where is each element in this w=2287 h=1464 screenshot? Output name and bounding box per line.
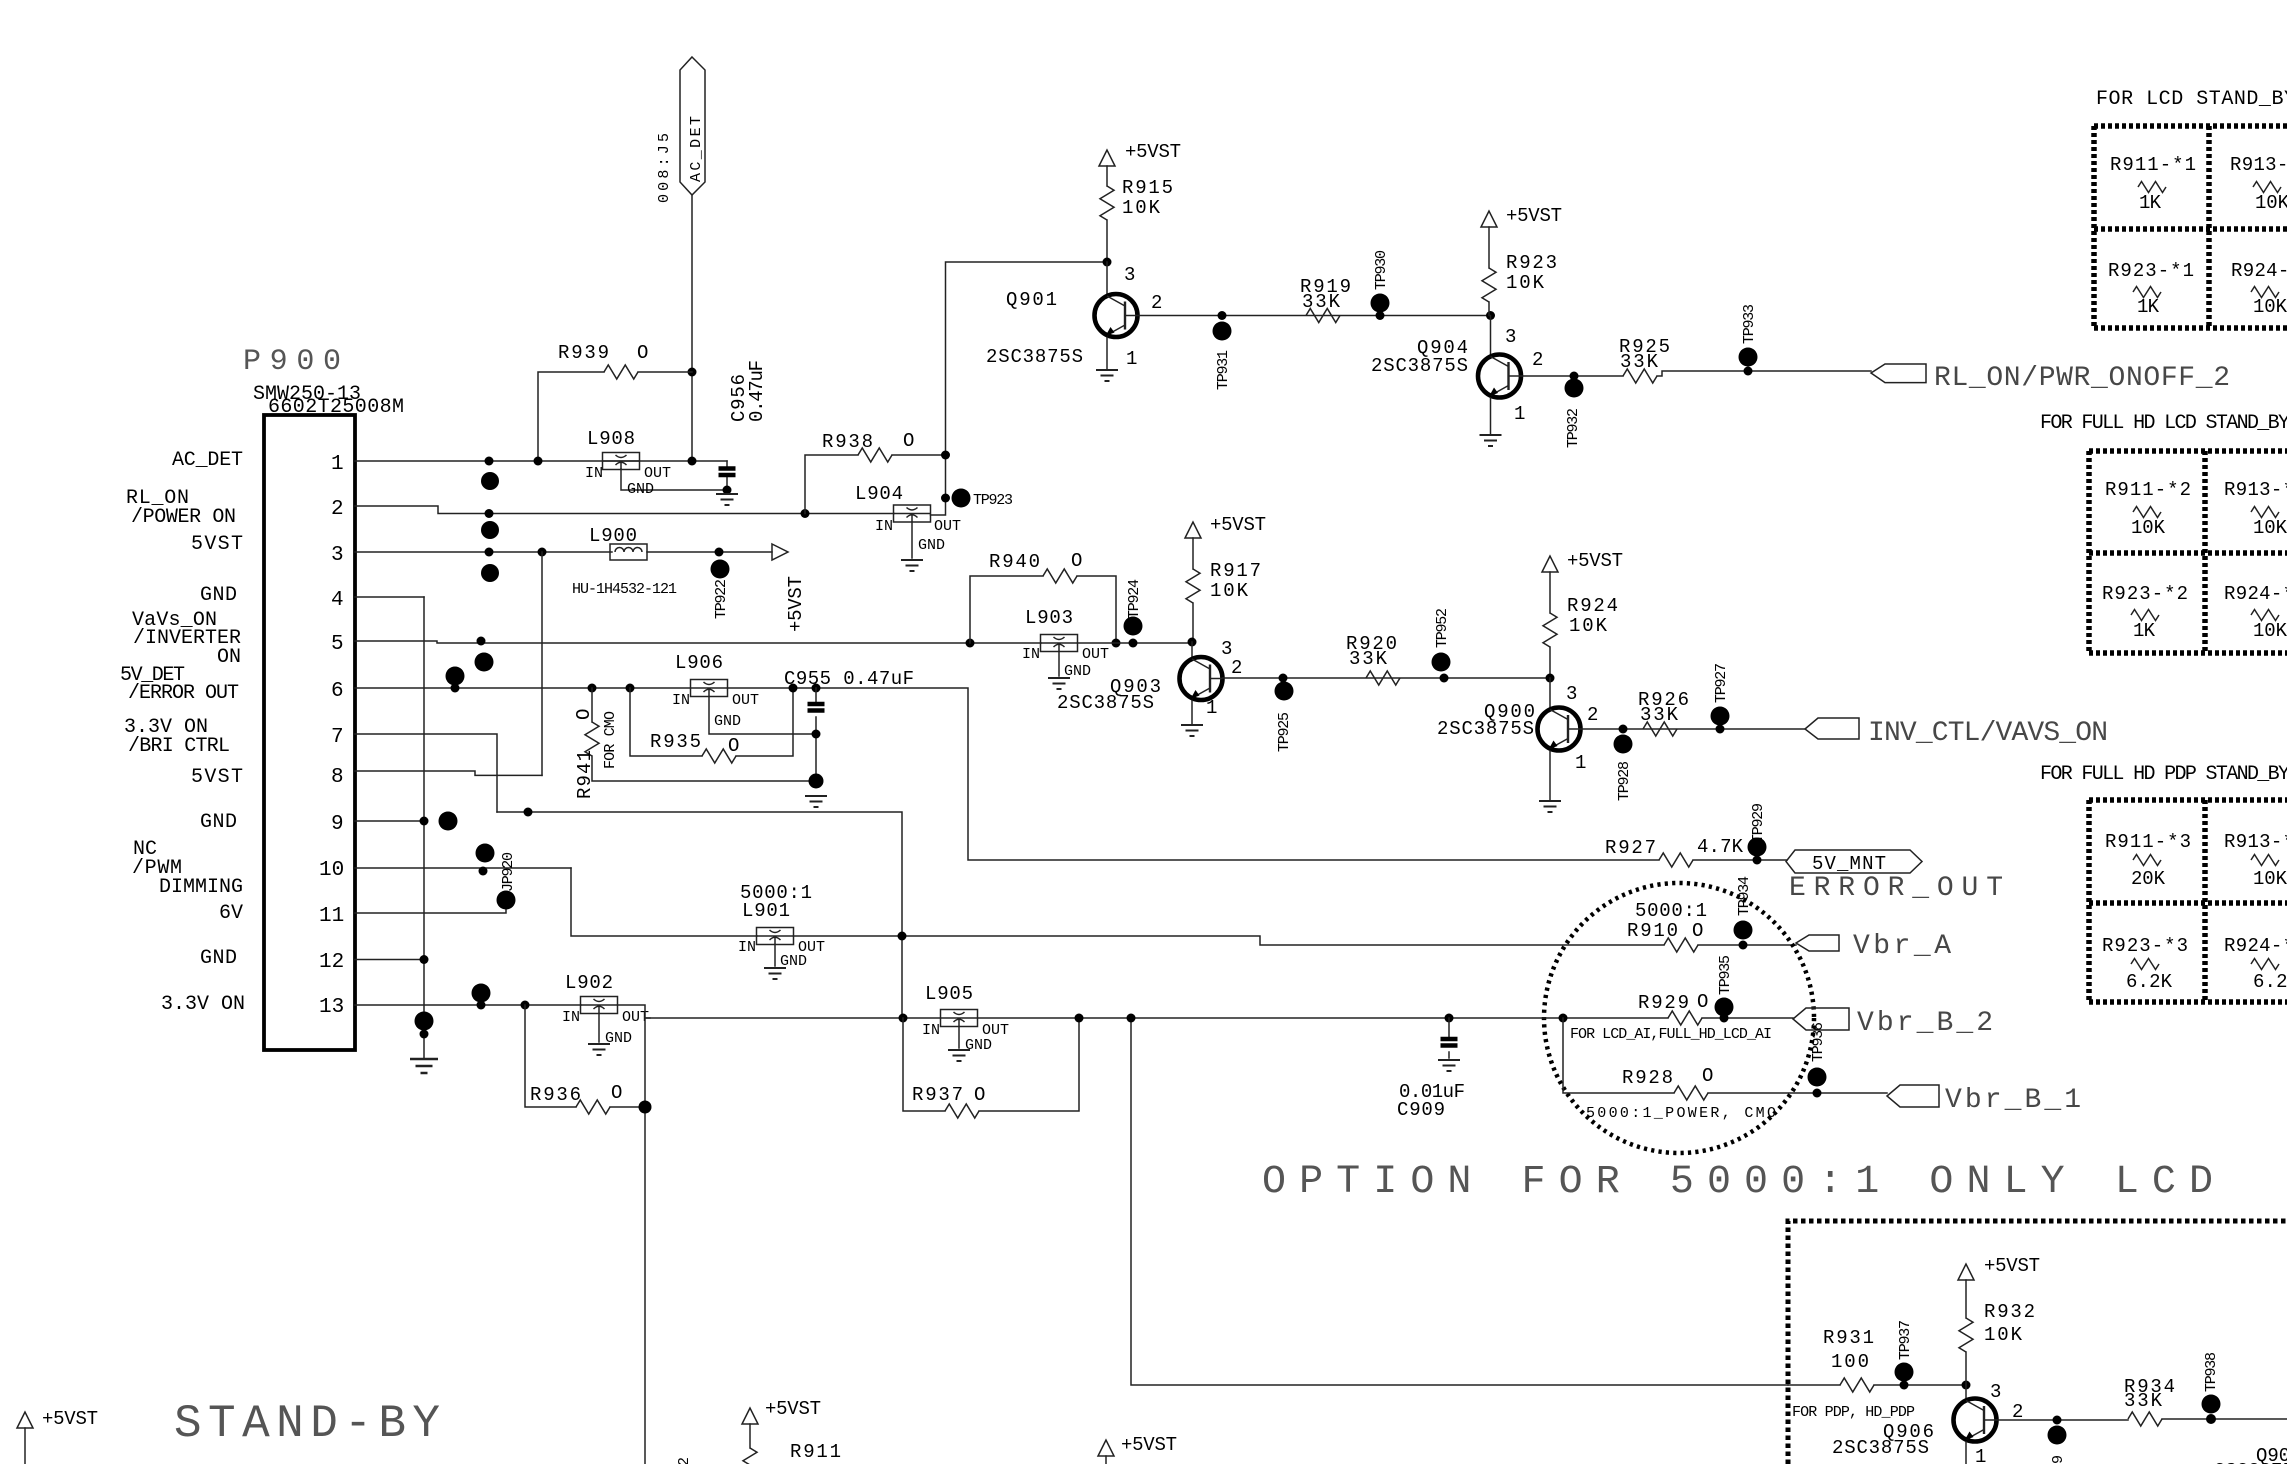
resistor R924-*3 6.2K [2224,935,2287,993]
option table 2 (full HD LCD) [2089,451,2287,653]
power +5VST above R917 [1185,514,1266,569]
test point TP939 [2048,1416,2068,1464]
svg-text:3: 3 [331,544,344,567]
svg-text:+5VST: +5VST [785,576,807,632]
wire pin6 continues [728,688,1660,860]
net flag Vbr_B_2 [1793,1008,1993,1039]
svg-text:R927: R927 [1605,837,1656,859]
svg-text:R924-*: R924-* [2224,583,2287,605]
svg-text:1: 1 [1126,348,1137,370]
resistor R919 33K [1300,276,1351,323]
wire Q906 base run [1997,1419,2287,1420]
svg-text:+5VST: +5VST [1506,205,1562,227]
pad dots lower [415,1012,434,1031]
ground below C909 [1438,1060,1460,1071]
resistor R937 (0) [903,1014,1084,1119]
svg-text:R932: R932 [1984,1301,2035,1323]
svg-text:TP931: TP931 [1215,350,1232,390]
svg-text:10K: 10K [1506,272,1545,294]
svg-text:3: 3 [1566,683,1577,705]
test point TP933 [1739,304,1759,376]
svg-text:+5VST: +5VST [1567,550,1623,572]
node pin1 dots [485,457,494,466]
svg-text:O: O [1692,920,1703,942]
svg-text:IN: IN [672,692,690,709]
power +5VST above R924 [1542,550,1623,613]
ground below L901 [764,968,786,979]
wire 5VST vertical pin3-pin8 [541,552,543,775]
svg-text:O: O [903,430,914,452]
test point TP924 [1124,579,1144,648]
svg-text:3: 3 [1990,1381,2001,1403]
power +5VST above R915 [1099,141,1181,186]
svg-text:10K: 10K [1984,1324,2023,1346]
resistor R923-*2 1K [2102,583,2188,642]
svg-text:6602T25008M: 6602T25008M [268,396,404,419]
ground below L904 [901,560,923,571]
wire GND vertical pin4 chain [423,597,425,1059]
inductor L903 [1022,607,1109,680]
svg-text:GND: GND [714,713,741,730]
svg-text:3: 3 [1505,326,1516,348]
node pin2 dots [485,509,494,518]
svg-text:RL_ON/PWR_ONOFF_2: RL_ON/PWR_ONOFF_2 [1934,363,2230,394]
svg-text:0.47uF: 0.47uF [746,360,768,422]
svg-text:TP922: TP922 [713,579,730,619]
svg-text:2: 2 [1231,657,1242,679]
branch to 3.3V rail [645,1017,650,1019]
node: AC_DET/R939 junction [688,368,697,377]
net flag Vbr_B_1 [1887,1085,2081,1116]
svg-text:ON: ON [217,646,241,669]
svg-text:R917: R917 [1210,560,1261,582]
svg-text:3: 3 [1124,264,1135,286]
node R941/C955 bottom [809,774,824,789]
svg-text:5VST: 5VST [191,533,243,556]
test point TP938 [2202,1352,2221,1424]
resistor R925 33K [1619,336,1670,383]
svg-text:R923-*2: R923-*2 [2102,583,2188,605]
node R938 right junction [941,451,950,460]
svg-text:OUT: OUT [934,518,961,535]
wire long vertical to bottom box [1131,1018,1788,1385]
wire 3.3V rail to circle [645,1017,1668,1019]
svg-text:10K: 10K [2253,620,2287,642]
resistor R924-*2 10K [2224,583,2287,642]
ground below L903 [1048,678,1070,689]
resistor R911-*3 20K [2105,831,2191,890]
svg-text:6.2K: 6.2K [2126,971,2173,993]
resistor R932 10K [1959,1301,2035,1385]
node Q903 collector junction [1188,638,1197,647]
svg-text:R910: R910 [1627,920,1678,942]
svg-text:+5VST: +5VST [1210,514,1266,536]
node Q906 collector junction [1962,1381,1971,1390]
svg-text:L904: L904 [855,483,903,505]
svg-text:13: 13 [319,996,344,1019]
table1 row divider [2094,226,2287,232]
net flag RL_ON/PWR_ONOFF_2 [1871,363,2230,394]
test point TP928 [1614,725,1634,802]
node pin7 line joins L901 out [898,932,907,941]
resistor R911-*2 10K [2105,479,2191,539]
svg-text:FOR PDP, HD_PDP: FOR PDP, HD_PDP [1792,1404,1915,1421]
resistor R926 33K [1638,689,1689,736]
wire Q901 base run [1138,315,1491,317]
svg-text:OUT: OUT [644,465,671,482]
svg-text:10K: 10K [2253,517,2287,539]
svg-text:TP930: TP930 [1373,250,1390,290]
resistor R931 100 [1788,1327,1966,1421]
svg-text:2SC3875S: 2SC3875S [1437,718,1534,740]
ground below Q903 [1181,725,1203,736]
test point TP922 [711,548,731,620]
wire L900 out to +5VST arrow [647,551,772,553]
resistor R929 (0) [1638,991,1793,1025]
wire Q900 base run [1581,728,1805,730]
inductor L900 [572,525,677,598]
svg-text:6: 6 [331,680,344,703]
ground below Q901 [1096,370,1118,381]
pad dot below pin1 [481,472,499,490]
node Q901 collector junction [1103,258,1112,267]
resistor R923-*3 6.2K [2102,935,2188,993]
test point TP930 [1371,250,1391,320]
resistor R913-*3 10K [2224,831,2287,890]
ground below L905 [948,1050,970,1061]
svg-text:L906: L906 [675,652,723,674]
svg-text:Vbr_B_2: Vbr_B_2 [1857,1008,1993,1039]
connector 008:J5 pill [656,57,705,203]
svg-text:2SC3875S: 2SC3875S [986,346,1083,368]
svg-text:TP935: TP935 [1717,955,1734,995]
node pin9 junction [420,817,429,826]
node C909 junction [1445,1014,1454,1023]
svg-text:R923: R923 [1506,252,1557,274]
svg-text:/ERROR OUT: /ERROR OUT [128,682,239,705]
svg-text:10: 10 [319,859,344,882]
svg-text:GND: GND [918,537,945,554]
svg-text:2: 2 [1587,704,1598,726]
svg-text:+5VST: +5VST [765,1398,821,1420]
svg-text:2SC3875S: 2SC3875S [2214,1460,2287,1464]
svg-text:O: O [1071,550,1082,572]
svg-text:IN: IN [585,465,603,482]
power +5VST bottom left [17,1408,98,1464]
svg-text:Q901: Q901 [1006,289,1057,311]
svg-text:TP932: TP932 [1565,408,1582,448]
capacitor C955 0.47uF [784,668,914,781]
pad dot pin9 [439,812,458,831]
svg-text:R911-*3: R911-*3 [2105,831,2191,853]
svg-text:R915: R915 [1122,177,1173,199]
svg-text:1: 1 [1575,752,1586,774]
svg-text:R924: R924 [1567,595,1618,617]
pin label 5V_DET /ERROR OUT [120,664,239,705]
svg-text:IN: IN [1022,646,1040,663]
node circle split junction [1559,1014,1568,1023]
svg-text:2: 2 [676,1457,693,1464]
svg-text:+5VST: +5VST [1984,1255,2040,1277]
svg-text:R938: R938 [822,431,873,453]
test point TP927 [1711,663,1731,734]
pin label RL_ON /POWER ON [126,487,236,529]
node Q900 collector junction [1546,674,1555,683]
svg-text:FOR FULL HD LCD STAND_BY: FOR FULL HD LCD STAND_BY [2040,412,2287,435]
pin 12 [319,951,424,974]
svg-text:R931: R931 [1823,1327,1874,1349]
resistor R938 (0) [805,430,946,514]
ground below Q904 [1480,435,1502,446]
node: AC_DET/pin1 junction [688,457,697,466]
svg-text:9: 9 [331,813,344,836]
svg-text:1: 1 [1514,403,1525,425]
svg-text:5000:1_POWER, CMO: 5000:1_POWER, CMO [1586,1105,1776,1122]
resistor R915 10K [1100,177,1173,262]
svg-text:2: 2 [1151,292,1162,314]
svg-text:100: 100 [1831,1351,1869,1373]
resistor R936 (0) [525,1005,652,1114]
svg-text:IN: IN [738,939,756,956]
svg-text:ERROR_OUT: ERROR_OUT [1789,873,2003,904]
svg-text:11: 11 [319,905,344,928]
svg-text:O: O [1697,991,1708,1013]
svg-text:5000:1: 5000:1 [1635,900,1707,922]
svg-text:R935: R935 [650,731,701,753]
svg-text:1: 1 [1206,697,1217,719]
transistor Q904 2SC3875S [1371,316,1543,435]
svg-text:TP924: TP924 [1126,579,1143,619]
svg-text:TP929: TP929 [1750,803,1767,843]
svg-text:10K: 10K [1210,580,1249,602]
svg-text:R923-*1: R923-*1 [2108,260,2194,282]
transistor Q900 2SC3875S [1437,678,1598,800]
resistor R939 (0) [538,342,692,461]
pin 7 [331,726,497,812]
svg-text:TP923: TP923 [973,492,1013,509]
svg-text:DIMMING: DIMMING [159,876,243,899]
wire pin7 horizontal run y=812 [497,812,902,1018]
pin 9 [331,813,424,836]
svg-text:10K: 10K [1569,615,1608,637]
ground below C956 [716,494,738,505]
svg-text:8: 8 [331,766,344,789]
resistor R935 (0) [626,684,794,764]
pin 3 [331,544,612,567]
svg-text:4: 4 [331,589,344,612]
svg-text:O: O [637,342,648,364]
resistor R924 10K [1543,595,1618,678]
resistor R913-*1 10K [2230,154,2287,214]
table3 row divider [2089,900,2287,906]
resistor R913-*2 10K [2224,479,2287,539]
svg-text:FOR LCD STAND_BY: FOR LCD STAND_BY [2096,88,2287,111]
svg-text:GND: GND [200,947,237,970]
svg-text:5: 5 [331,633,344,656]
net arrow +5VST [772,544,807,632]
svg-text:O: O [1702,1065,1713,1087]
pin 13 [319,996,581,1019]
svg-text:O: O [611,1082,622,1104]
pin 5 [331,633,1041,656]
resistor R927 4.7K [1605,836,1787,867]
test point TP937 [1895,1320,1915,1390]
svg-text:33K: 33K [2124,1390,2163,1412]
svg-text:GND: GND [200,811,237,834]
svg-text:Vbr_A: Vbr_A [1853,931,1951,962]
test point TP934 [1734,876,1754,950]
ground below Q900 [1539,801,1561,812]
inductor L906 [672,652,816,734]
node pin13 dots [472,984,491,1003]
resistor R920 33K [1346,633,1400,685]
resistor R923-*1 1K [2108,260,2194,318]
svg-text:10K: 10K [2255,192,2287,214]
svg-text:Vbr_B_1: Vbr_B_1 [1945,1085,2081,1116]
pin 6 [331,680,690,703]
wire L901 OUT to Vbr_A run [794,936,1665,945]
resistor R923 10K [1482,227,1557,316]
svg-text:R911: R911 [790,1441,841,1463]
svg-text:2: 2 [331,498,344,521]
svg-text:+5VST: +5VST [1125,141,1181,163]
svg-text:10K: 10K [2131,517,2166,539]
svg-text:R913-*: R913-* [2224,479,2287,501]
pin label 3.3V ON /BRI CTRL [124,716,230,758]
svg-text:C909: C909 [1397,1099,1445,1121]
svg-text:TP936: TP936 [1810,1022,1827,1062]
node L906 out / R935 right [789,684,798,693]
svg-text:GND: GND [627,481,654,498]
svg-text:2: 2 [1532,349,1543,371]
svg-text:L905: L905 [925,983,973,1005]
resistor R928 (0) [1563,1018,1887,1122]
svg-text:O: O [974,1084,985,1106]
power +5VST above R923 [1481,205,1562,227]
svg-text:TP938: TP938 [2203,1352,2220,1392]
svg-text:1K: 1K [2133,620,2156,642]
svg-text:R928: R928 [1622,1067,1673,1089]
pin 2 [331,498,894,521]
svg-text:5VST: 5VST [191,766,243,789]
svg-text:R929: R929 [1638,992,1689,1014]
resistor R924-*1 10K [2231,260,2287,318]
svg-text:2SC3875S: 2SC3875S [1832,1437,1929,1459]
net flag Vbr_A [1796,931,1951,962]
power +5VST above R932 [1958,1255,2040,1318]
test point TP935 [1715,955,1735,1023]
svg-text:AC_DET: AC_DET [172,449,243,472]
pin 1 [331,453,727,476]
pin 4 [331,589,424,612]
svg-text:L903: L903 [1025,607,1073,629]
svg-text:2SC3875S: 2SC3875S [1371,355,1468,377]
resistor R934 33K [2124,1376,2175,1426]
svg-text:+5VST: +5VST [1121,1434,1177,1456]
test point TP925 [1275,674,1294,753]
svg-text:OUT: OUT [732,692,759,709]
svg-text:33K: 33K [1640,704,1679,726]
net flag INV_CTL/VAVS_ON [1805,718,2108,749]
svg-text:FOR CMO: FOR CMO [602,711,619,769]
svg-text:TP925: TP925 [1276,712,1293,752]
svg-text:/BRI CTRL: /BRI CTRL [128,735,230,758]
svg-text:O: O [573,709,595,720]
transistor Q903 2SC3875S [1057,638,1242,724]
node L905 in [899,1014,908,1023]
test point TP952 [1432,608,1452,683]
svg-text:L900: L900 [589,525,637,547]
svg-text:6V: 6V [219,902,243,925]
test point TP931 [1213,311,1233,390]
inductor L904 [855,483,961,558]
svg-text:R924-*: R924-* [2224,935,2287,957]
wire Q904 base run [1522,371,1872,376]
node pin3 dots [485,548,494,557]
svg-text:TP952: TP952 [1434,608,1451,648]
svg-text:+5VST: +5VST [42,1408,98,1430]
svg-text:INV_CTL/VAVS_ON: INV_CTL/VAVS_ON [1868,718,2108,749]
svg-text:1: 1 [331,453,344,476]
node on y812 [524,808,533,817]
svg-text:L908: L908 [587,428,635,450]
transistor Q906 2SC3875S [1832,1381,2023,1464]
capacitor C909 0.01uF [1397,1018,1465,1121]
svg-text:20K: 20K [2131,868,2166,890]
svg-text:33K: 33K [1349,648,1388,670]
wire AC_DET vertical [691,195,693,461]
svg-text:TP928: TP928 [1616,761,1633,801]
svg-text:R924-*: R924-* [2231,260,2287,282]
svg-text:/POWER ON: /POWER ON [131,506,236,529]
inductor L908 [585,428,727,498]
svg-text:TP937: TP937 [1897,1320,1914,1360]
svg-text:IN: IN [922,1022,940,1039]
svg-text:L902: L902 [565,972,613,994]
svg-text:1K: 1K [2137,296,2160,318]
transistor Q901 2SC3875S [986,262,1162,370]
svg-text:33K: 33K [1302,291,1341,313]
test point TP936 [1808,1022,1828,1098]
svg-text:R940: R940 [989,551,1040,573]
test point TP929 [1748,803,1768,865]
svg-text:12: 12 [319,951,344,974]
svg-text:1K: 1K [2139,192,2162,214]
node R938 left junction [801,509,810,518]
resistor R910 (0) [1627,900,1796,952]
inductor L901 (5000:1) [738,882,825,970]
svg-text:4.7K: 4.7K [1697,836,1744,858]
svg-text:C955 0.47uF: C955 0.47uF [784,668,914,690]
svg-text:R923-*3: R923-*3 [2102,935,2188,957]
svg-text:R911-*1: R911-*1 [2110,154,2196,176]
node pin12 junction [420,955,429,964]
svg-text:R913-*: R913-* [2224,831,2287,853]
pin label NC /PWM DIMMING [132,838,243,899]
svg-text:33K: 33K [1620,351,1659,373]
node pin5 dots [477,637,486,646]
svg-text:6.2K: 6.2K [2253,971,2287,993]
svg-text:R941: R941 [574,750,596,799]
test point TP932 [1565,372,1584,449]
svg-text:3.3V ON: 3.3V ON [161,993,245,1016]
svg-text:R939: R939 [558,342,609,364]
svg-text:IN: IN [562,1009,580,1026]
ground below C955 [805,796,827,807]
power +5VST bottom mid / R911 [676,1398,841,1464]
svg-text:9: 9 [2050,1455,2067,1464]
resistor R940 (0) [966,550,1121,648]
